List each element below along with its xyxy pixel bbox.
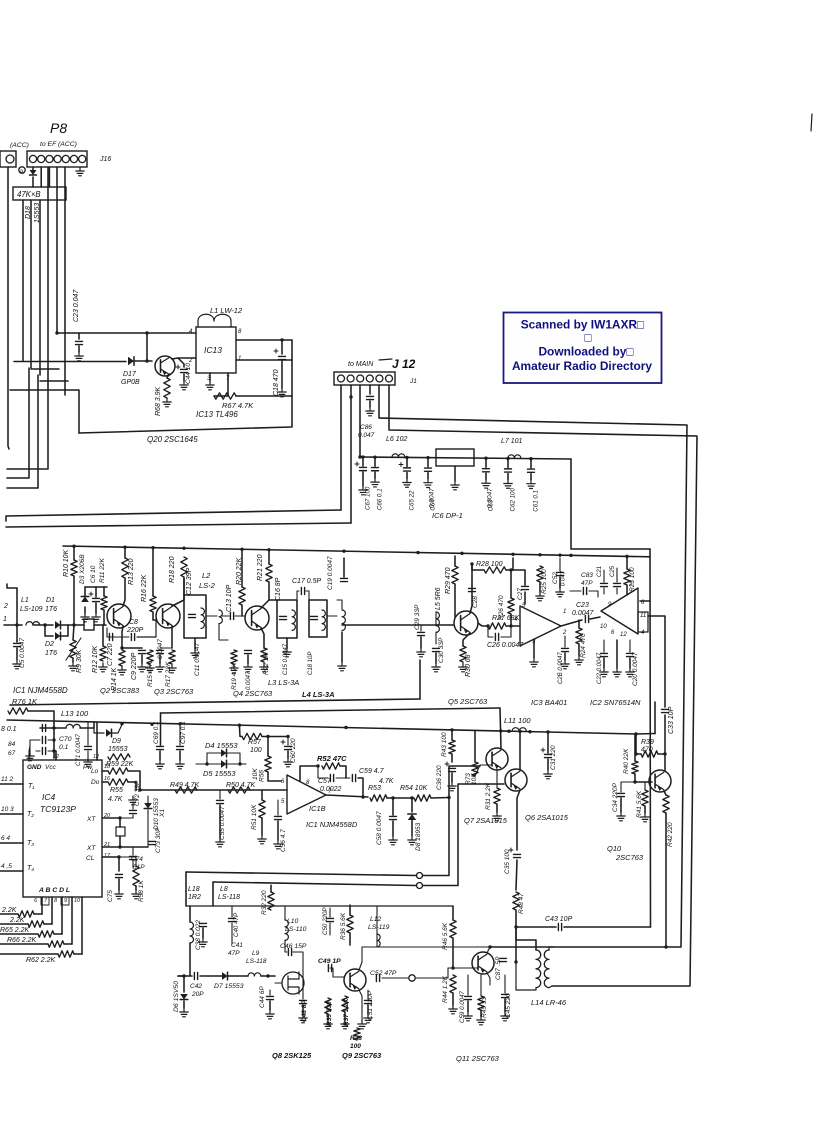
ground C69 — [156, 760, 164, 769]
wire RF top rail — [63, 546, 650, 557]
svg-text:R37 1.2K: R37 1.2K — [343, 997, 350, 1026]
inductor L2 — [201, 608, 204, 628]
inductor L10 — [285, 920, 288, 940]
svg-text:C30 33P: C30 33P — [438, 637, 445, 663]
svg-text:R25 100: R25 100 — [541, 569, 548, 594]
wire RF box right vertical — [419, 660, 421, 699]
resistor R50 — [228, 787, 250, 793]
ground R15 — [146, 664, 154, 673]
wire IC3 out — [561, 620, 582, 626]
wire C48 gnd — [302, 1005, 304, 1014]
wire staircase left 0 — [0, 913, 18, 915]
resistor R37 — [342, 996, 348, 1012]
svg-text:11 2: 11 2 — [1, 776, 14, 783]
capacitor C17 — [301, 588, 304, 595]
svg-text:C70: C70 — [59, 736, 72, 743]
resistor R41 — [642, 790, 648, 806]
wire R26 top — [510, 570, 512, 598]
svg-text:C56 4.7: C56 4.7 — [280, 829, 287, 852]
wire C6 ground — [95, 603, 97, 613]
junction rail C67 100 — [361, 455, 364, 458]
capacitor C71 — [85, 746, 92, 749]
resistor R52 — [322, 763, 340, 769]
ground Q9 emitter — [358, 1020, 366, 1029]
IC2 side box — [638, 612, 648, 632]
ground C85 — [26, 752, 34, 761]
wire x54 down — [53, 728, 55, 758]
wire R35 gnd — [327, 1014, 329, 1020]
ground C62 100 — [504, 479, 512, 488]
wire R27 to Q5 base — [478, 623, 488, 626]
svg-text:J1: J1 — [409, 378, 417, 385]
svg-text:C44 6P: C44 6P — [259, 986, 266, 1008]
wire IC1B pin8 up — [300, 766, 318, 781]
svg-text:R17 22K: R17 22K — [165, 661, 172, 687]
wire C50 down — [329, 923, 331, 935]
wire C66 0.1 from rail — [374, 458, 376, 466]
svg-text:1: 1 — [3, 616, 7, 623]
svg-text:IC6 DP-1: IC6 DP-1 — [432, 511, 463, 520]
resistor R36 — [347, 915, 353, 933]
svg-text:C75: C75 — [107, 890, 114, 902]
ground D6 — [180, 1008, 188, 1017]
ground R25 — [536, 592, 544, 601]
wire C31 gnd — [547, 759, 549, 770]
wire C67 100 from rail — [362, 458, 364, 466]
wire R29 bottom — [454, 584, 456, 617]
inductor L6 — [392, 454, 405, 457]
svg-text:1R2: 1R2 — [188, 894, 201, 901]
svg-text:10 3: 10 3 — [1, 806, 14, 813]
svg-text:L9: L9 — [252, 950, 260, 957]
svg-text:D9: D9 — [112, 738, 121, 745]
svg-text:C55 0.0047: C55 0.0047 — [219, 806, 226, 840]
capacitor C63 — [483, 469, 490, 472]
svg-text:R11 22K: R11 22K — [99, 558, 106, 583]
svg-text:L8: L8 — [220, 886, 228, 893]
wire Q20 collector to IC13 pin2 — [172, 358, 196, 359]
wire C40 ties — [231, 906, 233, 917]
ground R24 — [575, 656, 583, 665]
capacitor C29 — [418, 632, 425, 635]
wire Q4 collector — [261, 600, 277, 608]
wire C66 0.1 to ground — [374, 472, 376, 478]
wire R58 gnd — [135, 886, 137, 890]
svg-text:C36 220: C36 220 — [436, 765, 443, 790]
capacitor C21 — [601, 583, 608, 586]
capacitor C8 — [131, 634, 134, 641]
svg-text:R46 5.6K: R46 5.6K — [442, 922, 449, 950]
wire mark1 hook — [185, 872, 187, 906]
connector J1 pin 1 — [338, 375, 345, 382]
wire bundle 8 down — [7, 368, 29, 478]
wire C40 down — [231, 923, 233, 944]
capacitor C83 — [583, 588, 586, 595]
wire L13 to D9 stub — [93, 728, 95, 733]
svg-text:C42: C42 — [190, 983, 202, 990]
junction R49 in — [138, 788, 141, 791]
capacitor C15 — [280, 616, 287, 619]
junction L13 node — [52, 726, 55, 729]
transistor Q20 — [155, 356, 175, 376]
wire R30 tie — [463, 633, 470, 646]
wire R21 wires — [268, 550, 270, 564]
resistor R27 — [488, 623, 506, 629]
wire bias rail — [85, 586, 107, 588]
wire C61 0.1 from rail — [530, 460, 532, 468]
svg-text:R55: R55 — [110, 787, 123, 794]
connector J16 body — [27, 151, 87, 167]
ground R35 — [324, 1020, 332, 1029]
svg-text:0.047: 0.047 — [358, 432, 375, 439]
svg-text:0.0047: 0.0047 — [487, 488, 494, 508]
wire D7 out — [228, 975, 248, 977]
wire R58 ties — [119, 857, 136, 866]
ground C71 — [84, 758, 92, 767]
junction rail C65 22 — [405, 456, 408, 459]
wire L14 secondary bottom — [549, 986, 552, 988]
svg-text:R40 22K: R40 22K — [623, 748, 630, 774]
connector mark 3 — [409, 975, 415, 981]
junction R42 at feedback line — [664, 945, 667, 948]
wire C43 left — [516, 926, 556, 928]
inductor L11 — [512, 728, 526, 732]
ground R51 — [258, 835, 266, 844]
wire IC13 pin8 right — [236, 339, 292, 341]
IC IC6 body — [436, 449, 474, 466]
svg-text:C25: C25 — [610, 565, 616, 577]
svg-text:L14 LR-46: L14 LR-46 — [531, 998, 567, 1007]
wire IC2 pin12 gnd — [616, 640, 618, 668]
wire C29 ground — [420, 637, 422, 648]
wire L10 top tie — [284, 906, 286, 920]
wire C20 tie — [629, 640, 631, 652]
svg-text:1T6: 1T6 — [45, 606, 57, 613]
wire L18 down — [189, 943, 191, 975]
wire J1 pin1 down — [340, 385, 342, 510]
wire C59b gnd — [467, 1001, 469, 1012]
svg-text:R53: R53 — [368, 785, 381, 792]
capacitor C13 — [230, 613, 233, 620]
capacitor C44 — [181, 369, 188, 372]
capacitor C48 — [300, 1000, 307, 1003]
resistor R22 — [261, 648, 267, 662]
node marker a — [19, 167, 25, 173]
wire C74 down — [132, 861, 134, 868]
svg-text:Do: Do — [91, 779, 100, 786]
wire IC2 pin6 stub — [640, 600, 650, 602]
wire x54-56 link — [54, 750, 56, 752]
wire mixer input — [342, 624, 453, 626]
wire C59 out — [358, 778, 363, 797]
junction IC1B out — [361, 795, 364, 798]
resistor R57 — [242, 733, 262, 739]
transistor Q3 — [156, 604, 180, 628]
capacitor C40 — [229, 918, 236, 921]
resistor R46 — [450, 920, 456, 938]
svg-text:GP0B: GP0B — [121, 379, 140, 386]
svg-text:C86: C86 — [360, 424, 372, 431]
ground C55 — [216, 838, 224, 847]
transistor Q9 — [344, 969, 366, 991]
wire R48 down — [515, 910, 517, 927]
transformer L14 secondary — [544, 950, 549, 988]
junction rail C31 — [546, 730, 549, 733]
wire IC4 pin8 down — [61, 897, 63, 934]
resistor R29 — [452, 566, 458, 584]
wire rail to R39 — [636, 733, 655, 736]
scanned-by credit box — [504, 313, 662, 384]
ground C44 — [180, 381, 188, 390]
wire C6 stub — [95, 587, 97, 597]
svg-text:P8: P8 — [50, 120, 67, 136]
wire R40 down — [635, 774, 652, 782]
wire C64 from rail — [427, 459, 429, 467]
capacitor C68 — [42, 725, 45, 732]
svg-text:Q2 2SC383: Q2 2SC383 — [100, 686, 140, 695]
resistor R18 — [181, 557, 187, 577]
wire IC4 pin22-x54 — [53, 751, 55, 758]
ground output coil — [338, 662, 346, 671]
resistor R53 — [370, 795, 387, 801]
svg-text:10: 10 — [600, 624, 607, 630]
wire J1 pin5 long right — [379, 385, 687, 947]
connector J1 pin 5 — [376, 375, 383, 382]
ground C51 — [364, 1014, 372, 1023]
wire L13 out — [80, 723, 94, 729]
wire R67 to right edge — [236, 395, 292, 397]
junction rail x360 — [358, 455, 361, 458]
wire IC4 pin12 up — [96, 722, 98, 760]
ground IC3 pin3 — [530, 658, 538, 667]
wire staircase join 4 — [74, 953, 82, 955]
svg-text:C26 0.0047: C26 0.0047 — [487, 642, 524, 649]
connector J16 pin 5 — [62, 155, 69, 162]
wire C83 out — [589, 591, 598, 597]
wire R45 gnd — [480, 1010, 482, 1016]
wire bundle 3 — [30, 200, 32, 368]
svg-text:Amateur Radio Directory: Amateur Radio Directory — [512, 359, 652, 373]
inductor L18 — [190, 922, 194, 943]
svg-text:C23 0.047: C23 0.047 — [73, 289, 80, 322]
wire L14 primary top — [516, 927, 536, 950]
wire R36 ties — [349, 905, 351, 915]
capacitor C84 — [42, 737, 45, 744]
wire main supply rail — [7, 720, 636, 734]
wire staircase join 0 — [34, 913, 42, 915]
resistor R35 — [325, 998, 331, 1014]
svg-text:4 ,5: 4 ,5 — [1, 863, 12, 870]
wire IC6 bottom stub — [454, 466, 456, 481]
filter FL1 body — [84, 619, 94, 630]
svg-text:R13 220: R13 220 — [128, 558, 135, 585]
wire D8 ties — [411, 798, 413, 812]
svg-text:C52 47P: C52 47P — [370, 970, 397, 977]
svg-text:R67 4.7K: R67 4.7K — [222, 401, 254, 410]
svg-text:C62 100: C62 100 — [510, 488, 517, 512]
junction Q11 collector — [488, 945, 491, 948]
svg-text:Q3 2SC763: Q3 2SC763 — [154, 687, 194, 696]
svg-text:C83: C83 — [581, 572, 593, 579]
wire R43 down — [451, 754, 453, 762]
svg-text:Q4 2SC763: Q4 2SC763 — [233, 689, 273, 698]
wire C25 ties — [616, 568, 618, 582]
wire C72 up gnd — [132, 802, 134, 809]
svg-text:R49 4.7K: R49 4.7K — [170, 782, 200, 789]
ground C75 — [115, 890, 123, 899]
svg-text:Q20 2SC1645: Q20 2SC1645 — [147, 435, 198, 444]
wire D17 to Q20 — [134, 360, 152, 362]
svg-text:C41: C41 — [231, 942, 243, 949]
ground R19 — [230, 664, 238, 673]
wire VCO rail — [186, 905, 453, 907]
ground C10 — [156, 663, 164, 672]
ground C20 — [626, 668, 634, 677]
ground C6 — [92, 613, 100, 622]
wire C43 right — [564, 926, 651, 928]
svg-text:L4 LS-3A: L4 LS-3A — [302, 690, 335, 699]
resistor staircase 2.2K 1 — [28, 921, 44, 927]
wire C21 ties — [603, 570, 605, 582]
resistor R16 — [150, 596, 156, 612]
wire R23 ties — [626, 558, 628, 569]
wire L5 bottom — [435, 632, 437, 644]
diode D17 — [128, 357, 134, 365]
wire L14 secondary top — [549, 947, 554, 950]
junction rail x180 — [178, 722, 181, 725]
svg-text:47P: 47P — [228, 950, 240, 957]
wire IC13 right edge down — [291, 340, 293, 427]
ground C30 — [432, 663, 440, 672]
svg-text:C18 470: C18 470 — [273, 369, 280, 396]
wire R23 down — [626, 585, 628, 595]
wire bundle 2 — [22, 200, 24, 361]
wire stub y381 — [40, 380, 68, 382]
wire Q7 base — [475, 765, 492, 776]
svg-text:C20 0.0047: C20 0.0047 — [632, 652, 639, 686]
wire R43 ties — [451, 730, 453, 740]
capacitor C19 — [341, 578, 348, 581]
diode D8 — [408, 814, 416, 820]
wire Q6 collector up — [519, 731, 521, 770]
svg-text:C5 0.0047: C5 0.0047 — [19, 638, 26, 668]
wire C18 to ground — [281, 361, 283, 388]
wire Q9 collector rail — [362, 946, 490, 948]
wire L out top — [337, 600, 342, 610]
svg-text:R65 2.2K: R65 2.2K — [0, 927, 30, 934]
wire staircase left 4 — [0, 953, 58, 955]
wire C52 tie — [559, 558, 561, 571]
capacitor C61 0.1 — [528, 469, 535, 472]
wire R48 node down — [515, 927, 517, 962]
resistor R45 — [478, 996, 484, 1010]
ground C66 0.1 — [371, 478, 379, 487]
wire Q2 emitter — [122, 626, 123, 648]
wire C5 ground — [16, 648, 18, 660]
svg-text:T₄: T₄ — [27, 865, 34, 872]
wire bundle 10 down — [7, 381, 48, 469]
svg-text:R42 220: R42 220 — [667, 822, 674, 847]
junction R52 in — [316, 764, 319, 767]
junction rail end — [634, 732, 637, 735]
capacitor C49 — [328, 965, 331, 972]
capacitor C52b — [376, 975, 379, 982]
svg-text:C49 1P: C49 1P — [318, 958, 341, 965]
wire C13 wire — [221, 615, 229, 617]
resistor R13 — [122, 558, 128, 578]
ground D8 — [408, 836, 416, 845]
svg-text:2.2K: 2.2K — [1, 907, 17, 914]
junction L11 right — [528, 730, 531, 733]
capacitor C52 — [557, 572, 564, 575]
junction L11 left — [507, 730, 510, 733]
wire pin21 — [102, 846, 148, 848]
ground C45 — [501, 1012, 509, 1021]
wire R24 ties — [578, 620, 580, 628]
svg-text:0.1: 0.1 — [59, 744, 69, 751]
resistor R55a — [108, 768, 128, 774]
svg-text:L11 100: L11 100 — [504, 716, 531, 725]
transistor Q5 — [454, 611, 478, 635]
ground C31 — [544, 770, 552, 779]
capacitor C23 — [76, 341, 83, 344]
wire D10 ties — [147, 796, 149, 803]
wire C23 stub — [78, 333, 80, 339]
capacitor C22 — [601, 653, 608, 656]
svg-text:R66 2.2K: R66 2.2K — [7, 937, 37, 944]
wire Q9 emitter — [359, 990, 362, 1020]
resistor R44 — [450, 975, 456, 993]
svg-text:L2: L2 — [202, 571, 211, 580]
wire C64 to ground — [427, 473, 429, 479]
wire C50 ties — [329, 908, 331, 917]
wire Q6 emitter down — [517, 790, 520, 850]
wire mark2 right — [423, 784, 505, 886]
wire Q10 emitter — [664, 791, 666, 795]
wire IC3 pin5 up — [524, 592, 526, 604]
diode D6 varactor — [180, 994, 188, 1000]
resistor R10 — [71, 560, 77, 576]
wire D9 row — [94, 732, 104, 734]
junction D1 anode — [43, 623, 46, 626]
wire L10 to C46 — [285, 940, 287, 952]
transistor Q11 — [472, 952, 494, 974]
junction RF rail x125 — [123, 545, 126, 548]
wire input pin1 — [4, 624, 22, 626]
resistor staircase 2.2K 0 — [18, 911, 34, 917]
svg-text:R18 220: R18 220 — [169, 556, 176, 583]
junction D1 out — [72, 623, 75, 626]
diode D3 — [81, 597, 89, 603]
resistor staircase R66 2.2K 3 — [48, 941, 64, 947]
capacitor C42 — [194, 973, 197, 980]
diode D5 — [221, 760, 227, 768]
junction pin21 xtal — [118, 845, 121, 848]
ground at J16 pin7 — [76, 167, 84, 176]
inductor L3 — [292, 610, 295, 630]
svg-text:J16: J16 — [99, 156, 111, 163]
svg-text:C19 0.0047: C19 0.0047 — [327, 556, 334, 590]
wire C59 link — [346, 777, 350, 779]
wire R16 bottom — [153, 612, 156, 620]
svg-text:XT: XT — [86, 845, 96, 852]
wire Lo stub — [102, 770, 108, 772]
wire pin7 box — [41, 897, 49, 905]
wire C71 gnd — [87, 751, 89, 758]
svg-text:4.7K: 4.7K — [108, 796, 123, 803]
capacitor C46 — [288, 949, 291, 956]
ground C44b — [266, 1010, 274, 1019]
